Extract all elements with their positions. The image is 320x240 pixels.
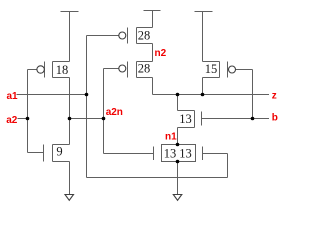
- svg-text:a1: a1: [7, 91, 19, 102]
- svg-text:13: 13: [179, 112, 192, 126]
- svg-text:13: 13: [164, 147, 177, 161]
- svg-text:13: 13: [179, 147, 192, 161]
- svg-text:z: z: [272, 91, 277, 102]
- svg-text:a2: a2: [6, 115, 18, 126]
- svg-text:9: 9: [56, 144, 62, 158]
- svg-text:28: 28: [138, 29, 151, 43]
- svg-text:a2n: a2n: [106, 107, 123, 118]
- svg-text:28: 28: [138, 61, 151, 75]
- svg-text:n1: n1: [165, 132, 177, 143]
- svg-text:b: b: [272, 113, 278, 124]
- svg-text:15: 15: [205, 62, 218, 76]
- svg-text:18: 18: [56, 63, 69, 77]
- svg-text:n2: n2: [155, 48, 167, 59]
